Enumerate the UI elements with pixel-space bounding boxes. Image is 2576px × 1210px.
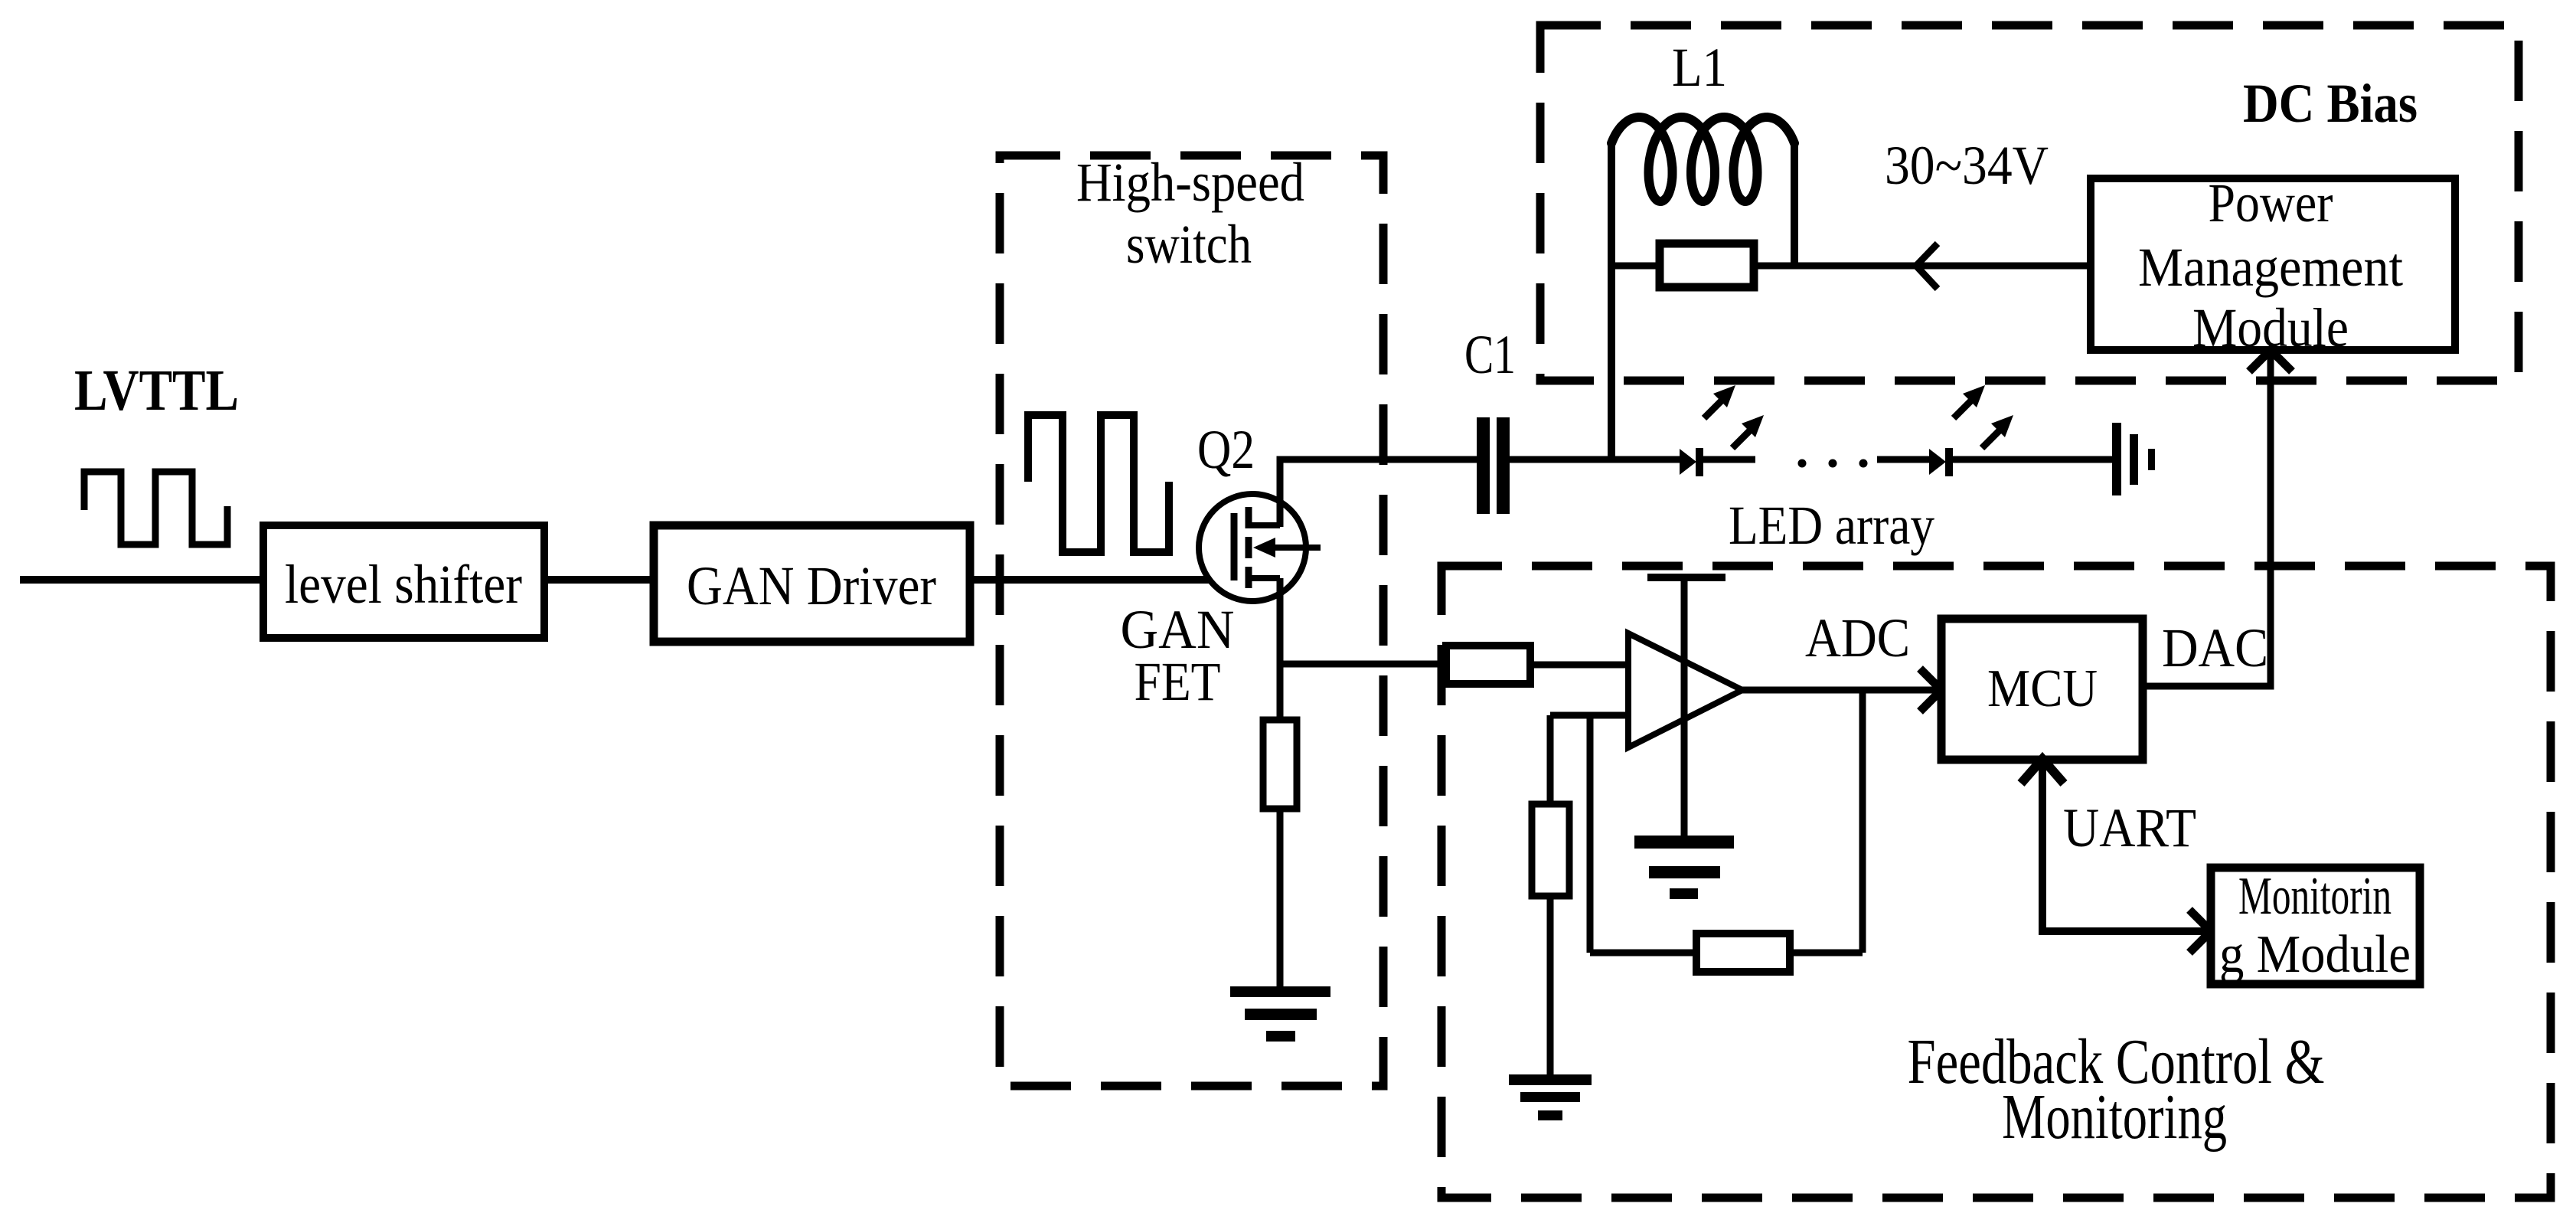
- svg-text:Management: Management: [2138, 237, 2403, 298]
- svg-text:ADC: ADC: [1805, 607, 1910, 669]
- wire input to level shifter: [20, 576, 260, 584]
- arrowhead into PMM: [2249, 350, 2292, 371]
- wire R4 to output node: [1790, 950, 1863, 957]
- Feedback Control dashed box: [1441, 566, 2551, 1198]
- wire dots to LED2: [1877, 456, 1929, 463]
- ground below opamp: [1634, 836, 1734, 899]
- transistor Q2 (GAN FET): [1199, 494, 1321, 601]
- feedback loop wire down: [1587, 715, 1594, 953]
- svg-text:UART: UART: [2063, 797, 2196, 858]
- svg-text:g Module: g Module: [2219, 925, 2411, 984]
- UART wire: [2042, 759, 2211, 931]
- gate drive square wave symbol: [1028, 415, 1169, 552]
- wire feedback up to output: [1859, 690, 1866, 953]
- svg-text:LVTTL: LVTTL: [74, 358, 239, 423]
- LVTTL square wave symbol: [84, 472, 227, 544]
- svg-text:DC Bias: DC Bias: [2243, 73, 2418, 134]
- wire level shifter to GAN Driver: [548, 576, 650, 584]
- resistor R4 feedback: [1696, 934, 1790, 972]
- resistor R5 below source: [1263, 720, 1297, 809]
- arrowhead into MCU bottom: [2021, 759, 2064, 783]
- svg-text:LED array: LED array: [1729, 495, 1934, 556]
- wire R2 to L1 right leg: [1754, 263, 1794, 270]
- svg-text:switch: switch: [1126, 214, 1252, 275]
- wire R1 to opamp: [1530, 662, 1628, 669]
- svg-text:MCU: MCU: [1987, 659, 2098, 718]
- wire LED1 to dots: [1703, 456, 1755, 463]
- op-amp U3: [1628, 633, 1742, 747]
- wire source down: [1277, 578, 1284, 720]
- wire source branch to feedback: [1280, 661, 1446, 668]
- ground below R3: [1509, 1074, 1592, 1120]
- ground below Q2: [1230, 986, 1330, 1042]
- svg-text:FET: FET: [1135, 651, 1221, 712]
- inductor right leg: [1791, 140, 1798, 266]
- wire drain up to C1 node: [1280, 459, 1477, 527]
- LED D2: [1929, 448, 1953, 476]
- Power Management Module box: [2091, 178, 2455, 350]
- wire LED2 to ground: [1953, 456, 2112, 463]
- LED D2 light arrows: [1954, 385, 2013, 448]
- Monitoring Module box: [2211, 868, 2420, 984]
- svg-text:Power: Power: [2209, 172, 2333, 234]
- svg-text:Monitoring: Monitoring: [2002, 1081, 2227, 1153]
- svg-text:GAN Driver: GAN Driver: [687, 555, 936, 616]
- wire resistor to ground: [1277, 809, 1284, 988]
- LED D1: [1680, 448, 1703, 476]
- wire down to R3: [1547, 715, 1554, 804]
- resistor R2: [1660, 244, 1754, 287]
- inductor L1 coil: [1611, 117, 1794, 201]
- ground right of LED array: [2112, 423, 2155, 495]
- wire opamp output to MCU: [1742, 687, 1937, 694]
- resistor R1 sense input: [1446, 646, 1530, 684]
- opamp supply bar: [1647, 574, 1725, 581]
- resistor R3: [1532, 804, 1569, 896]
- svg-text:Monitorin: Monitorin: [2238, 867, 2392, 926]
- LED D1 light arrows: [1704, 385, 1764, 448]
- wire opamp inverting input: [1550, 712, 1628, 719]
- inductor left leg down to LED node: [1608, 140, 1615, 459]
- svg-text:level shifter: level shifter: [285, 554, 522, 615]
- arrowhead into MCU: [1920, 669, 1941, 711]
- svg-text:Q2: Q2: [1197, 419, 1255, 480]
- wire R3 to ground: [1547, 896, 1554, 1074]
- opamp supply line through: [1681, 577, 1688, 836]
- MCU U4 box: [1941, 619, 2143, 760]
- svg-text:L1: L1: [1672, 37, 1727, 98]
- arrowhead into Monitoring: [2189, 910, 2211, 953]
- svg-text:High-speed: High-speed: [1076, 152, 1304, 213]
- wire GAN Driver to gate: [974, 576, 1234, 584]
- arrowhead left on bias wire: [1916, 244, 1938, 289]
- dots ellipsis: [1798, 459, 1807, 468]
- wire MCU DAC to PMM: [2143, 350, 2271, 686]
- DC Bias dashed box: [1540, 25, 2519, 381]
- wire through resistor R2: [1611, 263, 1660, 270]
- High-speed switch dashed box: [1000, 155, 1383, 1086]
- level shifter U1 box: [263, 525, 544, 638]
- svg-text:DAC: DAC: [2162, 617, 2268, 679]
- GAN Driver U2 box: [654, 525, 970, 642]
- svg-text:30~34V: 30~34V: [1885, 135, 2049, 196]
- wire C1 to LED1: [1510, 456, 1681, 463]
- capacitor C1: [1477, 417, 1510, 514]
- svg-text:C1: C1: [1464, 324, 1516, 385]
- wire PMM to L1 with left arrow: [1794, 263, 2091, 270]
